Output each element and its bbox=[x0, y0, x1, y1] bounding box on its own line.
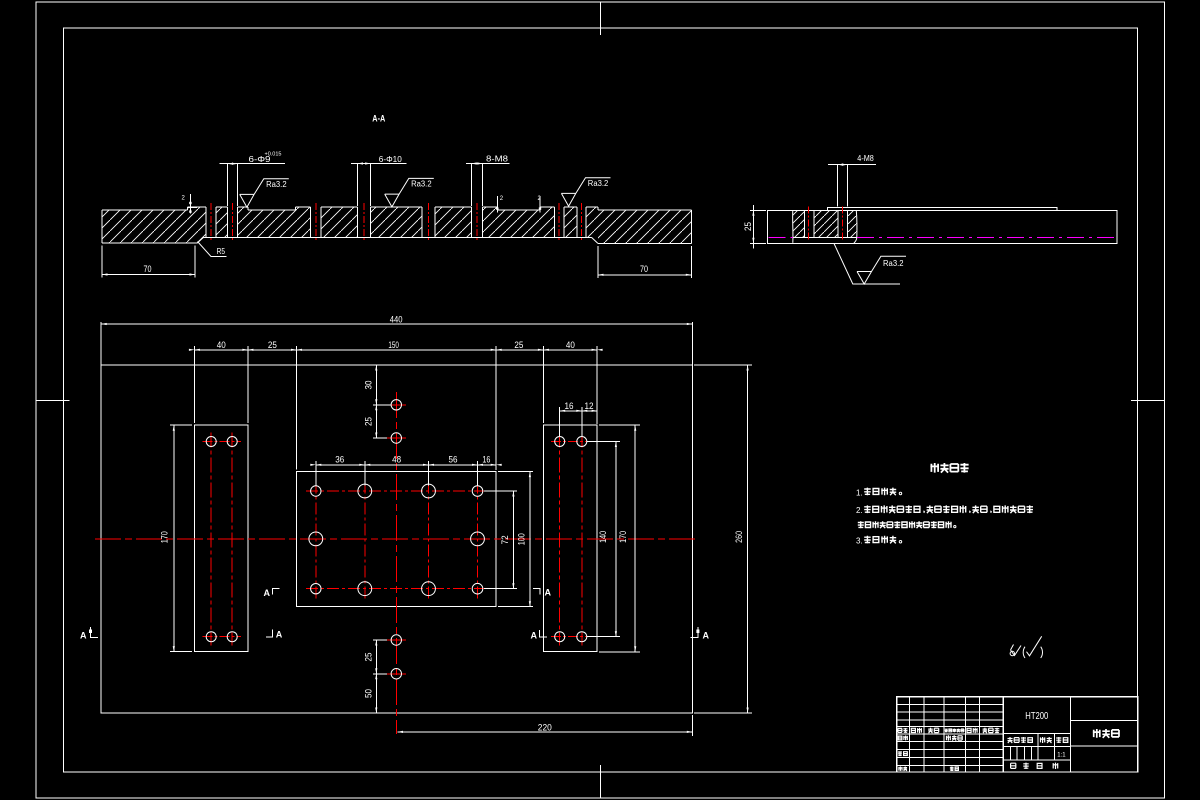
svg-text:220: 220 bbox=[538, 722, 552, 733]
section hole slot edges bbox=[205, 207, 207, 237]
svg-text:72: 72 bbox=[500, 535, 511, 544]
svg-text:25: 25 bbox=[743, 222, 753, 231]
title block bottom row gong zhang di zhang bbox=[1011, 763, 1016, 768]
side view Ra3.2 leader bbox=[834, 244, 900, 285]
svg-text:100: 100 bbox=[517, 533, 528, 545]
plan strip holes bbox=[206, 437, 216, 447]
section bar step verticals bbox=[188, 207, 599, 210]
dimension 30 25 upper bbox=[375, 365, 377, 438]
plan main horizontal centerline red bbox=[95, 538, 696, 540]
svg-text:25: 25 bbox=[268, 340, 277, 351]
svg-text:48: 48 bbox=[392, 455, 401, 466]
side view broken-out section hatch bbox=[793, 210, 805, 237]
dimension 25 thickness bbox=[750, 209, 766, 211]
dimension row 40 25 150 25 40 bbox=[194, 349, 597, 351]
technical requirements line 3 bbox=[858, 521, 864, 528]
section arrow A far-right bbox=[691, 627, 699, 637]
section hole centerlines red bbox=[210, 203, 212, 242]
dimension 140 bbox=[615, 442, 617, 637]
svg-text:260: 260 bbox=[734, 531, 745, 543]
title block header texts bbox=[898, 728, 902, 732]
svg-text:30: 30 bbox=[363, 381, 374, 390]
svg-text:A: A bbox=[276, 630, 283, 640]
svg-text:8-M8: 8-M8 bbox=[486, 153, 508, 163]
side view plate outline bbox=[768, 210, 1117, 243]
dimension 70 right bbox=[597, 246, 599, 278]
side view M8 hole centerlines red bbox=[808, 207, 810, 242]
svg-text:+0.015: +0.015 bbox=[265, 151, 282, 157]
svg-text:4-M8: 4-M8 bbox=[857, 154, 874, 163]
side view broken-out boundary left bbox=[792, 210, 794, 243]
svg-text:150: 150 bbox=[388, 340, 399, 351]
step depth dim 2 mid-left bbox=[496, 196, 498, 213]
title block stage mark labels bbox=[1008, 737, 1013, 743]
title block outer frame bbox=[897, 697, 1138, 772]
svg-text:16: 16 bbox=[482, 455, 490, 466]
svg-text:70: 70 bbox=[640, 264, 648, 274]
dimension 440 bbox=[101, 323, 692, 325]
svg-text:1.: 1. bbox=[856, 488, 863, 497]
svg-text:Ra3.2: Ra3.2 bbox=[411, 180, 432, 189]
svg-text:6-Φ10: 6-Φ10 bbox=[379, 154, 402, 164]
svg-text:Ra3.2: Ra3.2 bbox=[588, 179, 609, 188]
section bar left edge bbox=[101, 210, 103, 243]
section mark A upper-right bbox=[533, 589, 540, 595]
svg-text:A: A bbox=[531, 631, 538, 641]
section mark A lower-left bbox=[266, 630, 273, 638]
R5 leader and label bbox=[198, 242, 227, 257]
svg-text:1:1: 1:1 bbox=[1057, 752, 1066, 758]
side view M8 hole edges bbox=[804, 210, 806, 237]
title block middle lines bbox=[1003, 733, 1070, 735]
svg-text:Ra3.2: Ra3.2 bbox=[883, 259, 904, 268]
svg-text:25: 25 bbox=[363, 653, 374, 662]
plan central middle row large holes bbox=[309, 532, 323, 546]
svg-text:140: 140 bbox=[598, 531, 609, 543]
surface finish Ra3.2 symbol 1 bbox=[240, 179, 289, 208]
surface finish Ra3.2 symbol 3 bbox=[561, 178, 610, 207]
centering mark bottom bbox=[600, 765, 602, 798]
dimension 220 bbox=[398, 731, 693, 733]
side view section bottom line bbox=[793, 237, 857, 239]
svg-text:25: 25 bbox=[363, 417, 374, 426]
dimension 170 right bbox=[634, 425, 636, 652]
svg-text:40: 40 bbox=[217, 340, 226, 351]
title block left table horizontals bbox=[897, 704, 1003, 706]
dimension 100 bbox=[529, 472, 531, 607]
title block row gongyi-pizhun bbox=[898, 767, 902, 771]
section bar hatch left block bbox=[102, 207, 206, 243]
side view magenta centerline left bbox=[769, 236, 793, 238]
section bar R5 fillet steps bbox=[197, 237, 598, 243]
svg-text:56: 56 bbox=[449, 455, 458, 466]
svg-text:36: 36 bbox=[335, 455, 344, 466]
side view raised step line bbox=[828, 207, 1057, 210]
plan central hole column centerlines red bbox=[315, 482, 317, 599]
svg-text:R5: R5 bbox=[217, 247, 226, 256]
plan central bottom row holes bbox=[311, 584, 321, 594]
svg-text:170: 170 bbox=[618, 531, 629, 543]
svg-text:12: 12 bbox=[585, 401, 594, 411]
step depth dim 2 left bbox=[189, 194, 191, 214]
other-surfaces roughness mark bbox=[1011, 645, 1022, 656]
svg-text:2.: 2. bbox=[856, 506, 863, 515]
svg-text:40: 40 bbox=[566, 340, 575, 351]
dimension 170 left bbox=[173, 425, 175, 651]
plan small hole crosshairs red bbox=[387, 404, 406, 406]
svg-text:440: 440 bbox=[390, 315, 403, 326]
technical requirements title bbox=[930, 463, 938, 473]
plan right strip outline bbox=[543, 425, 597, 651]
title block row shenhe bbox=[898, 751, 902, 756]
section bar right edge bbox=[690, 210, 692, 244]
svg-text:A: A bbox=[703, 630, 710, 640]
part name jiajuti bbox=[1093, 729, 1101, 738]
svg-text:170: 170 bbox=[160, 531, 171, 543]
section bar bottom edge bbox=[102, 237, 691, 243]
dimension 16 12 right strip bbox=[560, 410, 597, 412]
step depth dim 2 mid-right bbox=[539, 196, 541, 213]
plan main vertical centerline red bbox=[395, 392, 397, 734]
plan view plate outline bbox=[101, 365, 692, 713]
dimension 72 bbox=[512, 491, 514, 589]
svg-text:A: A bbox=[264, 588, 271, 598]
title block row shejibiaozhunhua bbox=[898, 736, 902, 740]
title block right section lines bbox=[1070, 697, 1072, 772]
svg-text:50: 50 bbox=[363, 689, 374, 698]
plan central top row holes bbox=[311, 486, 321, 496]
svg-text:A: A bbox=[80, 630, 87, 640]
side view Ra3.2 symbol bbox=[857, 256, 906, 284]
centering mark top bbox=[600, 2, 602, 35]
plan left strip outline bbox=[194, 425, 248, 651]
section bar outline top edge bbox=[102, 207, 691, 210]
section bar hatch blocks bbox=[216, 207, 227, 237]
dimension 70 left bbox=[101, 246, 103, 278]
plan strip hole centerlines red horizontal bbox=[203, 441, 242, 443]
plan central hole row centerlines red bbox=[306, 490, 488, 492]
svg-text:3.: 3. bbox=[856, 537, 863, 546]
svg-text:HT200: HT200 bbox=[1025, 711, 1048, 722]
svg-text:A: A bbox=[545, 588, 552, 598]
plan strip hole centerlines red vertical bbox=[210, 433, 212, 646]
dimension 25 50 lower bbox=[375, 640, 377, 713]
centering mark right bbox=[1131, 400, 1165, 402]
plan upper pair holes bbox=[391, 400, 401, 410]
svg-text:Ra3.2: Ra3.2 bbox=[266, 180, 287, 189]
side view broken-out boundary right spline bbox=[854, 210, 857, 243]
side view magenta centerline right bbox=[857, 236, 1117, 238]
plan central block outline bbox=[297, 472, 497, 607]
dimension 260 bbox=[747, 365, 749, 713]
title block left table verticals bbox=[908, 697, 910, 772]
surface finish Ra3.2 symbol 2 bbox=[385, 178, 434, 207]
plan lower pair holes bbox=[391, 635, 401, 645]
svg-text:70: 70 bbox=[144, 264, 152, 274]
dimension row 36 48 56 16 bbox=[316, 464, 496, 466]
svg-text:16: 16 bbox=[565, 401, 574, 411]
svg-text:A-A: A-A bbox=[372, 113, 385, 124]
svg-text:25: 25 bbox=[514, 340, 523, 351]
centering mark left bbox=[36, 400, 70, 402]
